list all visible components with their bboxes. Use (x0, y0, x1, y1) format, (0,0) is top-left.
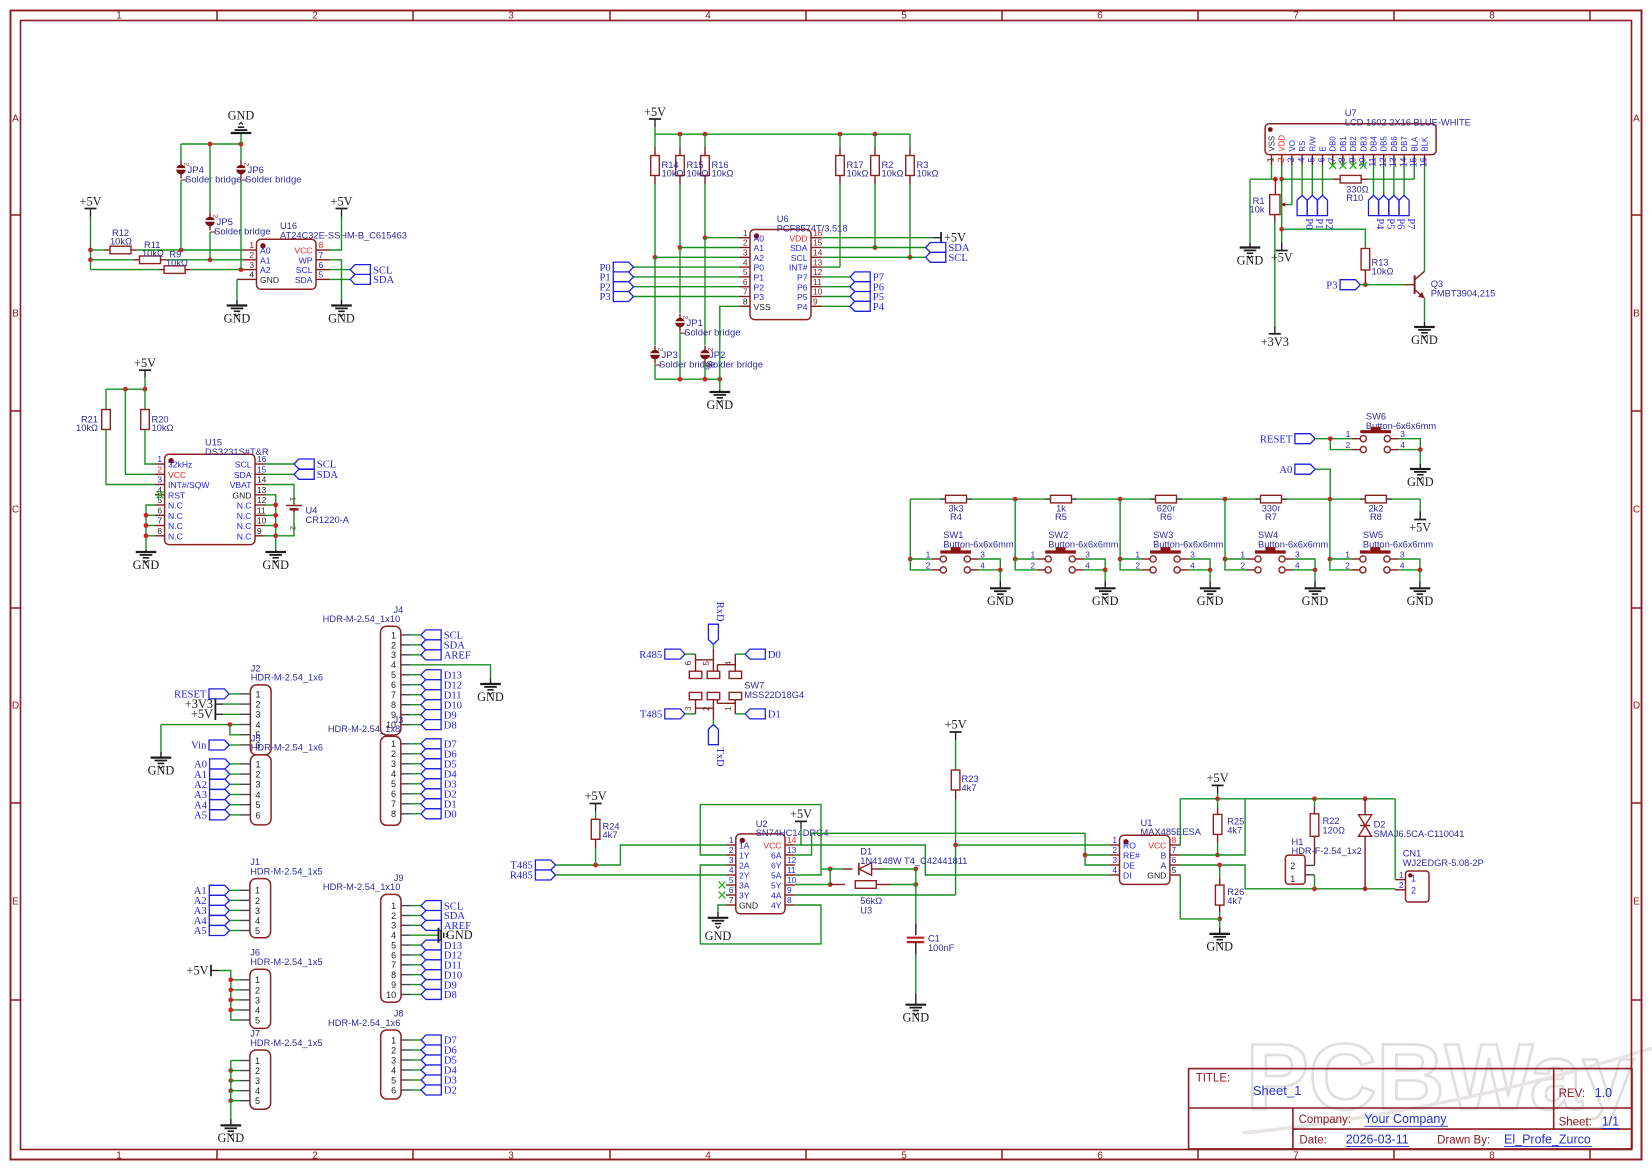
svg-text:2: 2 (255, 1066, 260, 1076)
svg-text:VCC: VCC (763, 841, 781, 851)
svg-text:1: 1 (391, 739, 396, 749)
svg-text:5: 5 (255, 1015, 260, 1025)
svg-text:4A: 4A (771, 891, 782, 901)
svg-text:DB5: DB5 (1380, 136, 1389, 152)
svg-text:D2: D2 (1374, 820, 1386, 830)
svg-text:12: 12 (257, 495, 267, 505)
svg-text:3: 3 (391, 759, 396, 769)
svg-text:6: 6 (1097, 10, 1103, 21)
svg-text:P5: P5 (797, 292, 808, 302)
svg-text:4: 4 (255, 916, 260, 926)
svg-text:2: 2 (255, 985, 260, 995)
svg-text:4Y: 4Y (771, 901, 782, 911)
svg-text:SDA: SDA (373, 275, 395, 286)
svg-text:A: A (1161, 861, 1167, 871)
svg-text:2: 2 (312, 10, 318, 21)
svg-text:11: 11 (1368, 157, 1378, 166)
svg-text:8: 8 (391, 700, 396, 710)
svg-text:RxD: RxD (714, 602, 725, 622)
svg-text:3: 3 (1400, 550, 1405, 560)
svg-text:3: 3 (255, 995, 260, 1005)
svg-text:13: 13 (787, 845, 797, 855)
svg-text:E: E (1319, 146, 1328, 151)
svg-text:2: 2 (256, 700, 261, 710)
svg-text:1: 1 (256, 759, 261, 769)
svg-text:2: 2 (702, 706, 711, 711)
svg-text:7: 7 (1172, 845, 1177, 855)
svg-text:4: 4 (1085, 560, 1090, 570)
svg-text:DB3: DB3 (1359, 136, 1368, 151)
svg-text:2026-03-11: 2026-03-11 (1346, 1133, 1409, 1147)
svg-text:2: 2 (157, 465, 162, 475)
svg-text:RE#: RE# (1123, 851, 1140, 861)
svg-text:6: 6 (743, 277, 748, 287)
svg-text:1: 1 (1411, 874, 1416, 884)
svg-text:2: 2 (1346, 440, 1351, 450)
svg-text:+5V: +5V (1409, 520, 1431, 534)
svg-text:GND: GND (1407, 594, 1434, 608)
svg-text:3: 3 (157, 475, 162, 485)
svg-text:1: 1 (1112, 835, 1117, 845)
svg-text:D8: D8 (444, 720, 457, 731)
svg-text:B: B (1161, 851, 1167, 861)
svg-text:+5V: +5V (331, 194, 353, 208)
svg-text:10kΩ: 10kΩ (142, 249, 164, 259)
svg-text:3: 3 (255, 906, 260, 916)
svg-text:7: 7 (319, 250, 324, 260)
svg-text:1: 1 (255, 886, 260, 896)
svg-text:GND: GND (224, 311, 251, 325)
svg-text:7: 7 (391, 799, 396, 809)
svg-text:P7: P7 (1405, 218, 1416, 229)
svg-text:2: 2 (1135, 560, 1140, 570)
svg-text:R22: R22 (1323, 816, 1340, 826)
svg-text:+5V: +5V (187, 963, 209, 977)
svg-text:A5: A5 (194, 811, 207, 822)
svg-text:3Y: 3Y (739, 891, 750, 901)
svg-text:+3V3: +3V3 (1261, 335, 1289, 349)
svg-text:HDR-M-2.54_1x6: HDR-M-2.54_1x6 (251, 673, 323, 683)
svg-text:P0: P0 (754, 263, 765, 273)
svg-text:9: 9 (1347, 157, 1357, 162)
svg-text:GND: GND (739, 901, 758, 911)
svg-text:GND: GND (1206, 940, 1233, 954)
svg-text:16: 16 (257, 454, 267, 464)
svg-text:GND: GND (902, 1011, 929, 1025)
svg-text:1N4148W T4_C42441811: 1N4148W T4_C42441811 (860, 856, 967, 866)
svg-text:GND: GND (477, 690, 504, 704)
svg-text:10: 10 (386, 990, 396, 1000)
svg-text:P1: P1 (1313, 218, 1324, 229)
svg-text:1: 1 (116, 1150, 122, 1161)
svg-text:GND: GND (1237, 253, 1264, 267)
svg-text:6: 6 (1172, 855, 1177, 865)
svg-text:B: B (1633, 309, 1640, 320)
svg-text:9: 9 (813, 297, 818, 307)
svg-text:3: 3 (256, 780, 261, 790)
svg-text:DB6: DB6 (1390, 136, 1399, 151)
svg-text:DB2: DB2 (1349, 136, 1358, 151)
svg-text:10kΩ: 10kΩ (110, 237, 132, 247)
svg-text:8: 8 (1489, 10, 1495, 21)
svg-text:HDR-M-2.54_1x8: HDR-M-2.54_1x8 (328, 724, 400, 734)
svg-text:DB7: DB7 (1400, 136, 1409, 151)
svg-text:2: 2 (926, 560, 931, 570)
svg-text:RO: RO (1123, 841, 1136, 851)
svg-text:GND: GND (446, 928, 473, 942)
svg-text:1Y: 1Y (739, 851, 750, 861)
svg-text:1: 1 (289, 497, 296, 501)
svg-text:8: 8 (1172, 835, 1177, 845)
svg-text:N.C: N.C (168, 511, 183, 521)
svg-text:5: 5 (255, 926, 260, 936)
svg-text:13: 13 (257, 485, 267, 495)
svg-text:Company:: Company: (1299, 1114, 1351, 1126)
svg-text:4k7: 4k7 (1227, 825, 1242, 835)
svg-text:2: 2 (391, 749, 396, 759)
svg-text:RS: RS (1298, 141, 1307, 152)
svg-text:A: A (12, 114, 19, 125)
svg-text:N.C: N.C (168, 521, 183, 531)
svg-text:6: 6 (729, 885, 734, 895)
svg-text:DB4: DB4 (1370, 136, 1379, 152)
svg-text:2: 2 (1411, 886, 1416, 896)
svg-text:U4: U4 (306, 506, 318, 516)
svg-text:R4: R4 (950, 512, 962, 522)
svg-text:2: 2 (312, 1150, 318, 1161)
svg-text:7: 7 (391, 960, 396, 970)
svg-text:4: 4 (391, 660, 396, 670)
svg-text:1: 1 (724, 706, 733, 711)
svg-text:4: 4 (729, 865, 734, 875)
svg-text:4: 4 (391, 1065, 396, 1075)
svg-text:A2: A2 (754, 253, 765, 263)
svg-text:GND: GND (260, 275, 279, 285)
svg-text:1: 1 (391, 1035, 396, 1045)
svg-text:100nF: 100nF (928, 943, 955, 953)
svg-text:VDD: VDD (789, 233, 807, 243)
svg-text:6: 6 (391, 1085, 396, 1095)
svg-text:13: 13 (1388, 157, 1398, 167)
svg-text:A1: A1 (754, 243, 765, 253)
svg-text:5: 5 (1307, 157, 1317, 162)
svg-text:5: 5 (255, 1096, 260, 1106)
svg-text:3: 3 (729, 855, 734, 865)
svg-text:HDR-M-2.54_1x10: HDR-M-2.54_1x10 (323, 882, 401, 892)
svg-text:15: 15 (1409, 157, 1419, 167)
svg-text:D8: D8 (444, 990, 457, 1001)
svg-text:10kΩ: 10kΩ (917, 169, 939, 179)
svg-text:C: C (12, 505, 19, 516)
svg-text:9: 9 (787, 885, 792, 895)
svg-text:5Y: 5Y (771, 881, 782, 891)
svg-text:BLA: BLA (1410, 136, 1419, 152)
svg-text:VO: VO (1288, 140, 1297, 151)
svg-text:11: 11 (787, 865, 796, 875)
svg-text:R5: R5 (1055, 512, 1067, 522)
svg-text:Date:: Date: (1299, 1135, 1327, 1147)
svg-text:5: 5 (391, 670, 396, 680)
svg-text:2: 2 (1399, 880, 1404, 890)
svg-text:SDA: SDA (790, 243, 808, 253)
svg-text:Vin: Vin (191, 741, 207, 752)
svg-text:5: 5 (391, 1075, 396, 1085)
svg-text:7: 7 (157, 516, 162, 526)
svg-text:P2: P2 (754, 282, 765, 292)
svg-text:10kΩ: 10kΩ (76, 423, 98, 433)
svg-text:2: 2 (1290, 861, 1295, 871)
svg-text:GND: GND (328, 311, 355, 325)
svg-text:1: 1 (1031, 550, 1036, 560)
svg-text:3: 3 (684, 706, 693, 711)
svg-text:4: 4 (391, 931, 396, 941)
svg-text:P4: P4 (797, 302, 808, 312)
svg-text:7: 7 (743, 287, 748, 297)
svg-text:P3: P3 (754, 292, 765, 302)
svg-text:GND: GND (1147, 871, 1166, 881)
svg-text:10kΩ: 10kΩ (847, 169, 869, 179)
svg-text:LCD 1602 2X16 BLUE-WHITE: LCD 1602 2X16 BLUE-WHITE (1345, 117, 1471, 127)
svg-text:A0: A0 (260, 246, 271, 256)
svg-text:AREF: AREF (444, 651, 471, 662)
svg-text:+5V: +5V (1207, 771, 1229, 785)
svg-text:REV:: REV: (1559, 1088, 1585, 1100)
svg-text:+5V: +5V (945, 718, 967, 732)
svg-text:2: 2 (289, 526, 296, 530)
svg-text:SW1: SW1 (943, 530, 963, 540)
svg-text:A1: A1 (260, 255, 271, 265)
svg-text:GND: GND (706, 398, 733, 412)
svg-text:5: 5 (743, 267, 748, 277)
svg-text:8: 8 (391, 809, 396, 819)
svg-text:U6: U6 (777, 214, 789, 224)
svg-text:DB1: DB1 (1339, 136, 1348, 151)
svg-text:6A: 6A (771, 851, 782, 861)
svg-text:32kHz: 32kHz (168, 460, 192, 470)
svg-text:Solder bridge: Solder bridge (185, 175, 242, 186)
svg-text:10: 10 (787, 875, 797, 885)
svg-text:1/1: 1/1 (1602, 1114, 1619, 1128)
svg-text:12: 12 (813, 267, 823, 277)
svg-text:SMAJ6.5CA-C110041: SMAJ6.5CA-C110041 (1374, 829, 1465, 839)
svg-text:VCC: VCC (294, 246, 312, 256)
svg-text:WJ2EDGR-5.08-2P: WJ2EDGR-5.08-2P (1403, 858, 1484, 868)
svg-text:B: B (12, 309, 19, 320)
svg-text:Drawn By:: Drawn By: (1437, 1135, 1490, 1147)
svg-text:VSS: VSS (754, 302, 771, 312)
svg-text:R485: R485 (639, 650, 662, 661)
svg-text:6: 6 (256, 810, 261, 820)
svg-text:6: 6 (157, 506, 162, 516)
svg-text:VSS: VSS (1268, 136, 1277, 152)
svg-text:8: 8 (157, 526, 162, 536)
svg-text:4: 4 (705, 1150, 711, 1161)
svg-text:12: 12 (787, 855, 797, 865)
svg-text:SCL: SCL (791, 253, 808, 263)
svg-text:P2: P2 (1323, 218, 1334, 229)
svg-text:4: 4 (255, 1005, 260, 1015)
svg-text:A5: A5 (194, 926, 207, 937)
svg-text:8: 8 (319, 240, 324, 250)
svg-text:P3: P3 (1326, 280, 1337, 291)
svg-text:1: 1 (255, 1056, 260, 1066)
svg-text:GND: GND (705, 929, 732, 943)
svg-text:7: 7 (1293, 10, 1299, 21)
svg-text:2: 2 (1112, 845, 1117, 855)
svg-text:3: 3 (391, 650, 396, 660)
svg-text:2: 2 (1031, 560, 1036, 570)
svg-text:1: 1 (1345, 550, 1350, 560)
svg-text:3: 3 (256, 710, 261, 720)
svg-text:T485: T485 (640, 710, 662, 721)
svg-text:SDA: SDA (295, 275, 313, 285)
svg-text:9: 9 (391, 980, 396, 990)
svg-text:A0: A0 (1279, 465, 1292, 476)
svg-text:1: 1 (1346, 429, 1351, 439)
svg-text:SW3: SW3 (1153, 530, 1173, 540)
svg-text:HDR-M-2.54_1x6: HDR-M-2.54_1x6 (328, 1018, 400, 1028)
svg-text:8: 8 (1489, 1150, 1495, 1161)
svg-text:RESET: RESET (1260, 434, 1293, 445)
svg-text:+5V: +5V (790, 807, 812, 821)
svg-text:1: 1 (249, 240, 254, 250)
svg-text:4: 4 (256, 720, 261, 730)
svg-text:3: 3 (1112, 855, 1117, 865)
svg-text:+5V: +5V (134, 356, 156, 370)
svg-text:RST: RST (168, 490, 186, 500)
svg-text:+5V: +5V (644, 105, 666, 119)
svg-text:1: 1 (1290, 874, 1295, 884)
svg-text:5: 5 (901, 10, 907, 21)
svg-text:D2: D2 (444, 1086, 457, 1097)
svg-text:2: 2 (391, 640, 396, 650)
svg-text:HDR-M-2.54_1x10: HDR-M-2.54_1x10 (323, 614, 401, 624)
svg-text:HDR-M-2.54_1x5: HDR-M-2.54_1x5 (250, 957, 322, 967)
svg-text:PMBT3904,215: PMBT3904,215 (1431, 289, 1496, 299)
svg-text:16: 16 (813, 228, 823, 238)
svg-text:1: 1 (391, 901, 396, 911)
svg-text:1: 1 (157, 454, 162, 464)
svg-text:1: 1 (391, 630, 396, 640)
svg-text:+5V: +5V (585, 789, 607, 803)
svg-text:DE: DE (1123, 861, 1135, 871)
svg-text:A: A (1633, 114, 1640, 125)
svg-text:SDA: SDA (317, 470, 339, 481)
svg-text:10: 10 (813, 287, 823, 297)
svg-text:GND: GND (987, 594, 1014, 608)
svg-text:R/W: R/W (1308, 136, 1317, 152)
svg-text:11: 11 (813, 277, 822, 287)
svg-text:4: 4 (1190, 560, 1195, 570)
svg-text:8: 8 (743, 297, 748, 307)
svg-text:P4: P4 (1374, 218, 1385, 230)
svg-text:5: 5 (901, 1150, 907, 1161)
svg-text:INT#: INT# (789, 263, 808, 273)
svg-text:A0: A0 (754, 233, 765, 243)
svg-text:4: 4 (391, 769, 396, 779)
svg-text:4: 4 (1112, 865, 1117, 875)
svg-text:4: 4 (743, 257, 748, 267)
svg-text:P5: P5 (1384, 218, 1395, 229)
svg-text:2: 2 (729, 845, 734, 855)
svg-text:1: 1 (729, 835, 734, 845)
svg-text:CR1220-A: CR1220-A (306, 515, 350, 525)
svg-text:E: E (12, 897, 19, 908)
svg-text:N.C: N.C (237, 531, 252, 541)
svg-text:2: 2 (1345, 560, 1350, 570)
svg-text:6: 6 (684, 661, 693, 666)
svg-text:3: 3 (391, 921, 396, 931)
svg-text:1A: 1A (739, 841, 750, 851)
svg-text:15: 15 (813, 238, 823, 248)
svg-text:3: 3 (255, 1076, 260, 1086)
svg-text:2: 2 (391, 911, 396, 921)
svg-text:10kΩ: 10kΩ (1372, 267, 1394, 277)
svg-text:HDR-M-2.54_1x5: HDR-M-2.54_1x5 (250, 866, 322, 876)
svg-text:4: 4 (1295, 560, 1300, 570)
svg-text:14: 14 (813, 248, 823, 258)
svg-text:MSS22D18G4: MSS22D18G4 (744, 690, 804, 700)
svg-text:4: 4 (1400, 560, 1405, 570)
svg-text:1: 1 (743, 228, 748, 238)
svg-text:D: D (12, 701, 19, 712)
svg-text:GND: GND (1407, 475, 1434, 489)
svg-text:1: 1 (1135, 550, 1140, 560)
svg-text:2: 2 (249, 250, 254, 260)
svg-text:VCC: VCC (168, 470, 186, 480)
svg-text:3: 3 (1400, 429, 1405, 439)
svg-text:+5V: +5V (80, 194, 102, 208)
svg-text:WP: WP (299, 255, 313, 265)
svg-text:Solder bridge: Solder bridge (707, 360, 764, 371)
svg-text:3: 3 (391, 1055, 396, 1065)
svg-text:+5V: +5V (1271, 251, 1293, 265)
svg-text:10: 10 (257, 516, 267, 526)
svg-text:1.0: 1.0 (1595, 1086, 1612, 1100)
svg-text:E: E (1633, 897, 1640, 908)
svg-text:N.C: N.C (237, 501, 252, 511)
svg-text:U15: U15 (205, 437, 222, 447)
svg-text:P0: P0 (1303, 218, 1314, 229)
svg-text:2Y: 2Y (739, 871, 750, 881)
svg-text:5: 5 (319, 270, 324, 280)
svg-text:2: 2 (256, 770, 261, 780)
svg-text:P6: P6 (797, 282, 808, 292)
svg-text:TxD: TxD (714, 747, 725, 767)
svg-text:8: 8 (391, 970, 396, 980)
svg-text:DB0: DB0 (1329, 136, 1338, 152)
svg-text:4: 4 (1400, 440, 1405, 450)
svg-text:HDR-M-2.54_1x5: HDR-M-2.54_1x5 (250, 1038, 322, 1048)
svg-text:2: 2 (1276, 157, 1286, 162)
svg-text:2: 2 (255, 896, 260, 906)
svg-text:3: 3 (1085, 550, 1090, 560)
svg-text:1: 1 (1266, 157, 1276, 162)
svg-text:4: 4 (249, 270, 254, 280)
svg-text:P3: P3 (599, 292, 610, 303)
svg-text:SW4: SW4 (1258, 530, 1278, 540)
svg-text:GND: GND (262, 558, 289, 572)
svg-text:P7: P7 (797, 273, 808, 283)
svg-text:DI: DI (1123, 871, 1132, 881)
svg-text:INT#/SQW: INT#/SQW (168, 480, 210, 490)
svg-text:C1: C1 (928, 933, 940, 943)
svg-text:HDR-M-2.54_1x6: HDR-M-2.54_1x6 (251, 743, 323, 753)
svg-text:14: 14 (257, 475, 267, 485)
svg-text:8: 8 (787, 895, 792, 905)
svg-text:7: 7 (1327, 157, 1337, 162)
svg-text:6Y: 6Y (771, 861, 782, 871)
